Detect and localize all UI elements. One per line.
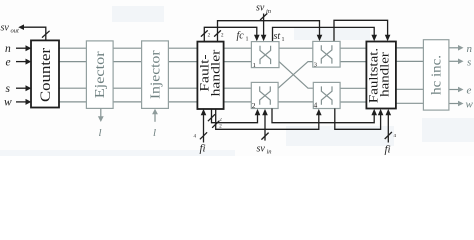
fi left input [203, 115, 205, 143]
st2 wire: crossbar2 bottom to Faultstat bottom [272, 109, 374, 123]
svg-text:e: e [6, 56, 11, 68]
Ejector box [86, 41, 113, 109]
svg-text:4: 4 [314, 100, 318, 109]
Faultstat handler box [366, 42, 396, 109]
svg-text:in: in [267, 149, 272, 156]
svg-text:s: s [6, 83, 11, 95]
sv_in bottom wire [264, 115, 266, 141]
crossbar U1 [251, 42, 279, 68]
wire rows Injector to Fault-handler [168, 48, 197, 102]
Fault-handler box [197, 42, 223, 109]
wire crossbar2 to crossbar3 diagonal [278, 62, 313, 89]
svg-text:n: n [5, 43, 11, 55]
slash 2 on fc4 [212, 121, 219, 128]
svg-text:e: e [467, 85, 472, 97]
svg-text:l: l [153, 127, 156, 139]
wire crossbar1 to crossbar4 diagonal [279, 62, 313, 89]
svg-text:fc: fc [237, 31, 245, 42]
svg-text:fi: fi [200, 143, 206, 155]
svg-text:w: w [4, 97, 12, 109]
slash 2 on fc2 [208, 114, 215, 121]
wire crossbar2 to crossbar4 [278, 101, 313, 103]
wire rows crossbars to Faultstat handler [340, 48, 366, 102]
input labels n e s w [4, 43, 12, 109]
slash on sv_out line [42, 31, 50, 38]
svg-text:l: l [99, 127, 102, 139]
svg-text:sv: sv [256, 3, 265, 14]
output arrows n s e w [449, 48, 459, 104]
input arrows [16, 48, 26, 102]
wire rows Fault-handler to crossbars [224, 48, 252, 102]
svg-text:handler: handler [209, 49, 223, 96]
hc inc box [423, 40, 449, 110]
svg-text:3: 3 [314, 61, 317, 68]
svg-text:fi: fi [385, 144, 391, 156]
svg-text:in: in [266, 8, 271, 15]
fc3 wire: Fault-handler top to crossbar3 [218, 21, 320, 42]
wire rows Faultstat to hc inc [396, 48, 424, 103]
svg-text:Ejector: Ejector [92, 51, 108, 98]
wire crossbar1 to crossbar3 [279, 47, 313, 49]
Injector inject arrow up [154, 114, 156, 122]
svg-text:out: out [11, 28, 20, 35]
svg-text:n: n [467, 43, 473, 55]
crossbar U2 [251, 82, 278, 108]
svg-text:sv: sv [257, 144, 266, 155]
slash on sv_in top [260, 13, 267, 20]
fc4 wire: Fault-handler bottom to crossbar4 [216, 109, 319, 129]
st3 wire: crossbar3 top to Faultstat top [334, 20, 388, 41]
Injector box [142, 41, 169, 109]
Counter box [31, 40, 59, 107]
wire rows Counter to Ejector [59, 48, 86, 102]
slash 2 on fc3 [214, 30, 221, 36]
svg-text:st: st [274, 31, 281, 42]
crossbar U3 [313, 41, 340, 67]
svg-text:w: w [466, 99, 474, 111]
svg-text:sv: sv [1, 23, 10, 34]
svg-text:2: 2 [252, 101, 256, 110]
fi right input [387, 115, 389, 143]
svg-text:handler: handler [378, 52, 392, 97]
sv_in top wire [263, 14, 265, 36]
svg-text:hc inc.: hc inc. [429, 55, 444, 95]
output labels [466, 43, 474, 111]
svg-text:1: 1 [253, 62, 256, 69]
svg-text:s: s [467, 56, 471, 68]
svg-text:1: 1 [282, 37, 285, 43]
fc1 wire: Fault-handler top to crossbar1 [204, 27, 256, 41]
fc2 wire: Fault-handler bottom to crossbar2 [212, 109, 258, 123]
crossbar U4 [313, 82, 340, 108]
svg-text:1: 1 [246, 37, 249, 43]
Ejector eject arrow down [100, 108, 102, 117]
slash 2 on fc1 [201, 30, 208, 36]
svg-text:Injector: Injector [148, 50, 163, 99]
scan tint patches [294, 27, 370, 40]
st1 wire: crossbar1 top to Faultstat top [273, 27, 375, 41]
wire rows Ejector to Injector [113, 48, 142, 102]
svg-text:Counter: Counter [38, 47, 54, 102]
st4 wire: crossbar4 bottom to Faultstat bottom [335, 109, 381, 130]
sv_out wire from Counter top [24, 27, 46, 40]
